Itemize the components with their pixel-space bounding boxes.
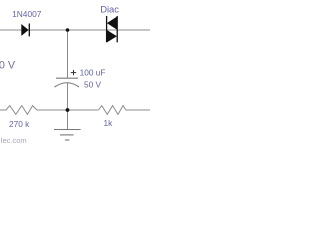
- svg-text:100 uF: 100 uF: [80, 67, 106, 77]
- svg-text:lec.com: lec.com: [1, 136, 27, 145]
- svg-text:1k: 1k: [104, 118, 114, 128]
- svg-text:50 V: 50 V: [84, 80, 102, 90]
- svg-text:Diac: Diac: [100, 4, 119, 15]
- svg-text:1N4007: 1N4007: [12, 9, 42, 19]
- svg-text:0 V: 0 V: [0, 60, 16, 72]
- svg-text:270 k: 270 k: [9, 119, 30, 129]
